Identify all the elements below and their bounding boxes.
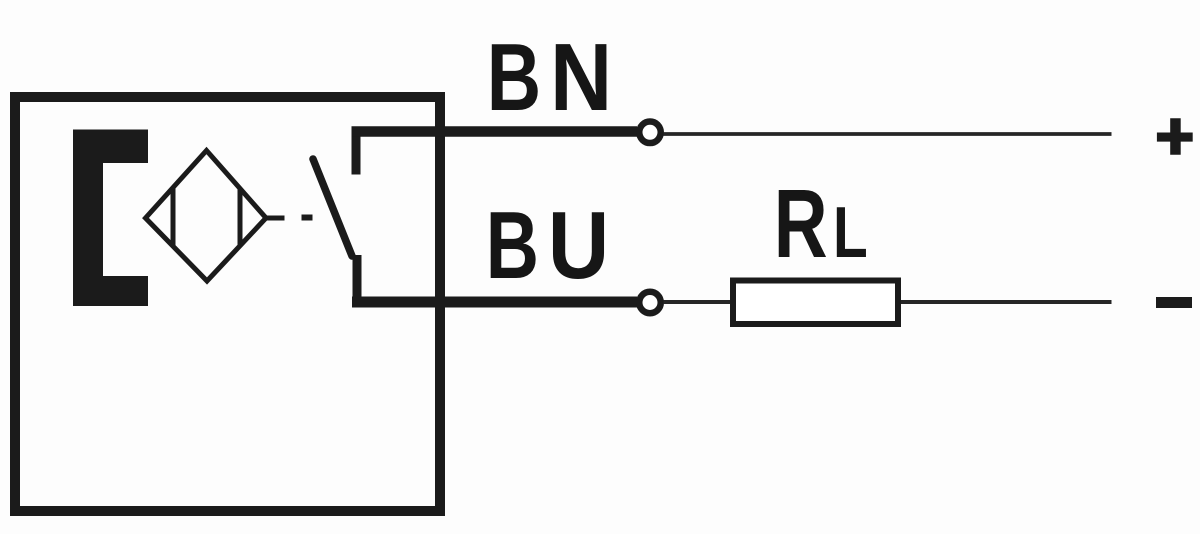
svg-text:U: U	[548, 192, 609, 299]
wire BU thick	[352, 297, 637, 308]
label BN	[487, 24, 613, 131]
actuation link solid segment	[266, 216, 285, 221]
sensing face bracket	[73, 130, 148, 307]
switch lower stub	[353, 255, 362, 303]
wire resistor to minus terminal	[901, 300, 1112, 304]
plus sign	[1157, 118, 1193, 155]
resistor RL body	[733, 281, 898, 325]
svg-text:B: B	[487, 24, 541, 131]
label BU	[486, 192, 609, 299]
terminal circle BN	[639, 122, 661, 144]
sensor housing box	[15, 97, 440, 511]
actuation link dash	[302, 215, 313, 221]
diamond right chord	[238, 189, 243, 247]
wire BN thick	[352, 126, 638, 137]
switch blade	[313, 159, 352, 256]
label RL	[774, 171, 868, 279]
switch upper stub	[352, 128, 361, 175]
svg-text:R: R	[774, 171, 828, 279]
terminal circle BU	[639, 292, 661, 314]
proximity sensor diamond	[146, 151, 267, 282]
svg-text:L: L	[833, 191, 868, 272]
svg-text:N: N	[550, 24, 612, 131]
wire to plus terminal	[664, 132, 1112, 136]
wire circle to resistor	[664, 300, 732, 304]
diamond left chord	[171, 187, 176, 247]
minus sign	[1156, 297, 1192, 308]
svg-text:B: B	[486, 193, 539, 300]
